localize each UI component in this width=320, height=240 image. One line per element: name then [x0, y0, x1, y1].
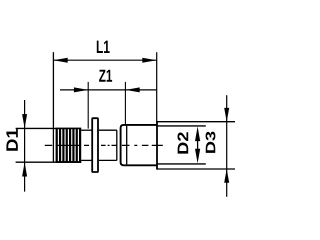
node D3 bottom arrowhead (outside, pointing up)	[224, 169, 229, 183]
node D1 top arrowhead (outside, pointing down)	[22, 114, 27, 128]
node L1 right arrowhead	[142, 58, 156, 63]
node smooth neck right face	[116, 130, 118, 160]
wire: D1 bottom extension line + ribbed section bottom edge	[16, 161, 82, 163]
node Z1 left arrowhead (outside, pointing right)	[74, 87, 88, 92]
wire: Z1 left extension line	[87, 82, 89, 129]
component smooth neck left (edges)	[81, 129, 92, 131]
node Z1 right arrowhead (outside, pointing left)	[125, 87, 139, 92]
component socket sleeve outer wall lines (extend as D3 extension lines)	[157, 121, 235, 123]
component flange collar	[92, 118, 98, 172]
wire: center line (dash-dot axis)	[45, 144, 163, 146]
wire: Z1 right extension line	[124, 82, 126, 124]
component smooth neck right (edges)	[99, 129, 117, 131]
wire: L1 dimension line	[53, 59, 156, 61]
node D3 label (rotated)	[206, 132, 216, 153]
component press body cylinder outline	[121, 125, 157, 165]
node D2 dimension arrows (inside, tips at inner walls)	[195, 127, 200, 142]
wire: D1 dimension line	[24, 100, 26, 192]
component ribbed pipe-insert section (serrations)	[56, 128, 82, 163]
node Z1 label	[99, 70, 112, 82]
wire: D1 top extension line + ribbed section top edge	[16, 127, 82, 129]
node D1 label (rotated)	[6, 129, 17, 151]
component socket sleeve inner wall lines	[157, 125, 206, 127]
wire: Z1 dimension line	[60, 89, 157, 91]
node L1 label	[97, 41, 110, 53]
node D2 label (rotated)	[177, 132, 188, 153]
node press body internal edge line	[126, 126, 128, 165]
node socket face (step between press body and sleeve)	[156, 121, 158, 170]
wire: L1 right extension line	[156, 52, 158, 122]
wire: left tip face + L1 left extension line	[52, 52, 54, 162]
node D1 bottom arrowhead (outside, pointing up)	[22, 162, 27, 176]
node L1 left arrowhead	[53, 58, 67, 63]
wire: D3 dimension line (vertical, at right face)	[226, 95, 228, 197]
node D3 top arrowhead (outside, pointing down)	[224, 108, 229, 122]
